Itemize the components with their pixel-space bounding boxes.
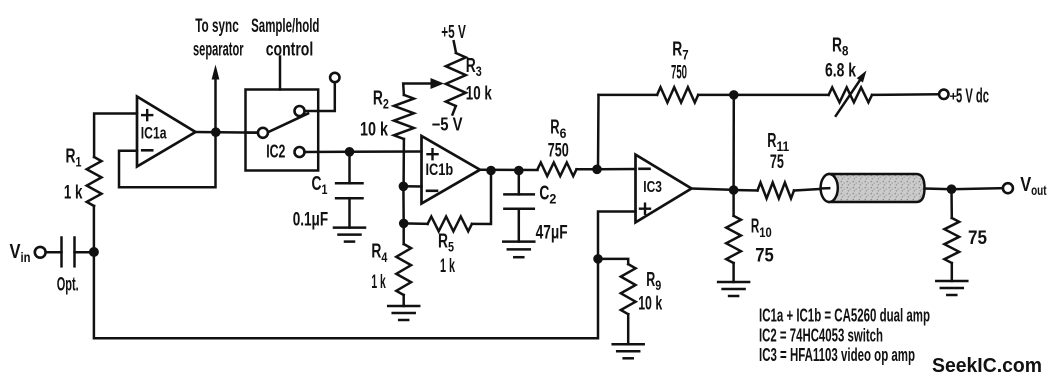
svg-text:IC2 = 74HC4053 switch: IC2 = 74HC4053 switch bbox=[759, 326, 883, 346]
wire bbox=[119, 132, 216, 187]
ground bbox=[936, 281, 967, 295]
svg-text:R7: R7 bbox=[672, 39, 689, 63]
resistor R9 bbox=[621, 264, 662, 314]
wire bbox=[480, 168, 538, 171]
wire bbox=[732, 190, 735, 282]
svg-text:R5: R5 bbox=[438, 231, 454, 255]
node output junction bbox=[947, 184, 957, 194]
wire bottom rail bbox=[94, 252, 598, 338]
wire bbox=[46, 251, 62, 254]
wire bbox=[599, 94, 658, 97]
wire bbox=[93, 206, 96, 252]
svg-text:75: 75 bbox=[968, 227, 987, 249]
label SeekIC.com watermark bbox=[932, 354, 1042, 377]
resistor R10 bbox=[726, 216, 774, 267]
svg-text:SeekIC.com: SeekIC.com bbox=[932, 354, 1042, 377]
node IC1b inverting input bbox=[399, 182, 409, 192]
wire bbox=[350, 150, 422, 153]
wire bbox=[734, 189, 758, 192]
svg-text:75: 75 bbox=[755, 245, 774, 267]
wire bbox=[75, 251, 94, 254]
svg-text:10 k: 10 k bbox=[360, 119, 388, 141]
svg-text:Vin: Vin bbox=[10, 241, 31, 265]
wire bbox=[794, 189, 821, 191]
ground bbox=[718, 282, 749, 296]
wire bbox=[305, 82, 335, 111]
resistor R11 bbox=[758, 130, 795, 199]
wire bbox=[403, 185, 421, 188]
switch throw contact (upper) bbox=[295, 106, 305, 116]
wire bbox=[404, 171, 491, 225]
node bbox=[399, 219, 409, 229]
svg-text:R10: R10 bbox=[751, 216, 772, 240]
node +5V dc terminal bbox=[939, 86, 989, 108]
node Vin terminal bbox=[10, 241, 46, 265]
wire bbox=[734, 94, 829, 97]
svg-text:−5 V: −5 V bbox=[432, 115, 463, 135]
svg-text:IC3: IC3 bbox=[643, 179, 662, 196]
capacitor Opt. (input coupling) bbox=[57, 238, 79, 296]
resistor R6 bbox=[538, 117, 577, 177]
wire bbox=[94, 114, 137, 158]
wire sample/hold control bbox=[251, 15, 319, 90]
svg-text:6.8 k: 6.8 k bbox=[825, 60, 856, 82]
svg-text:10 k: 10 k bbox=[638, 293, 662, 315]
svg-text:Opt.: Opt. bbox=[57, 275, 79, 296]
wire bbox=[441, 22, 466, 53]
svg-text:75: 75 bbox=[770, 151, 784, 173]
svg-text:IC1b: IC1b bbox=[426, 161, 454, 179]
resistor R5 bbox=[428, 217, 472, 278]
resistor R7 bbox=[657, 39, 698, 103]
ground bbox=[334, 228, 365, 242]
svg-text:0.1μF: 0.1μF bbox=[293, 209, 328, 231]
node IC1b output bbox=[486, 166, 496, 176]
op-amp IC1a bbox=[137, 97, 196, 167]
wire bbox=[732, 95, 735, 190]
resistor R8 (variable) bbox=[825, 35, 872, 116]
wire bbox=[196, 131, 258, 134]
op-amp IC1b bbox=[422, 136, 481, 204]
svg-text:To sync: To sync bbox=[195, 15, 239, 37]
svg-text:47μF: 47μF bbox=[536, 222, 568, 244]
svg-text:R8: R8 bbox=[832, 35, 849, 59]
wire bbox=[597, 168, 636, 171]
wire bbox=[598, 259, 628, 344]
svg-text:C1: C1 bbox=[312, 173, 328, 197]
svg-text:R1: R1 bbox=[66, 145, 82, 169]
ground bbox=[613, 344, 644, 358]
capacitor C1 bbox=[293, 152, 363, 231]
svg-text:R6: R6 bbox=[550, 117, 566, 141]
wire bbox=[432, 106, 463, 135]
svg-text:+5 V: +5 V bbox=[441, 22, 466, 42]
node Vout terminal bbox=[1003, 174, 1047, 198]
node IC1a output bbox=[211, 127, 221, 137]
wire bbox=[872, 93, 939, 96]
svg-text:IC3 = HFA1103 video op amp: IC3 = HFA1103 video op amp bbox=[759, 345, 915, 365]
switch blade bbox=[268, 114, 308, 133]
node feedback junction bbox=[729, 90, 739, 100]
wire bbox=[950, 189, 953, 281]
svg-text:1 k: 1 k bbox=[440, 255, 455, 277]
wire bbox=[402, 186, 405, 223]
svg-text:Vout: Vout bbox=[1020, 174, 1047, 198]
svg-text:IC1a: IC1a bbox=[141, 125, 167, 143]
wire bbox=[598, 212, 636, 259]
wire to sync separator bbox=[193, 15, 244, 128]
node hold capacitor junction bbox=[345, 147, 355, 157]
svg-text:control: control bbox=[266, 39, 314, 61]
svg-text:R4: R4 bbox=[371, 241, 387, 265]
svg-text:750: 750 bbox=[548, 139, 569, 161]
resistor 75 (load) bbox=[944, 218, 987, 263]
wire bbox=[692, 189, 734, 190]
wire bbox=[597, 95, 600, 169]
coax cable bbox=[821, 174, 925, 202]
svg-text:Sample/hold: Sample/hold bbox=[251, 15, 319, 37]
svg-text:separator: separator bbox=[193, 39, 244, 61]
wire bbox=[246, 131, 258, 134]
wire bbox=[698, 94, 734, 97]
svg-text:C2: C2 bbox=[539, 183, 556, 207]
switch IC2 box bbox=[246, 90, 319, 171]
svg-text:IC1a + IC1b = CA5260 dual amp: IC1a + IC1b = CA5260 dual amp bbox=[759, 306, 930, 326]
switch output contact bbox=[295, 147, 305, 157]
svg-text:5 V dc: 5 V dc bbox=[956, 86, 989, 108]
svg-text:1 k: 1 k bbox=[64, 182, 83, 204]
ground bbox=[503, 242, 534, 258]
svg-text:R9: R9 bbox=[646, 269, 661, 293]
svg-text:R3: R3 bbox=[466, 55, 482, 79]
svg-text:1 k: 1 k bbox=[371, 271, 385, 293]
ground bbox=[388, 306, 419, 320]
node control terminal bbox=[330, 73, 339, 82]
resistor R2 bbox=[360, 88, 414, 141]
wire bbox=[577, 168, 598, 171]
svg-text:750: 750 bbox=[671, 61, 687, 83]
op-amp IC3 bbox=[636, 155, 692, 223]
node bbox=[593, 254, 603, 264]
resistor R3 bbox=[446, 53, 492, 106]
svg-text:IC2: IC2 bbox=[266, 142, 285, 162]
resistor R4 bbox=[371, 241, 411, 295]
wire bbox=[402, 223, 405, 306]
capacitor C2 bbox=[504, 171, 567, 244]
node input junction bbox=[89, 247, 99, 257]
wire bbox=[925, 187, 952, 190]
node IC3 inverting node bbox=[592, 165, 602, 175]
node bbox=[514, 166, 524, 176]
resistor R1 bbox=[64, 145, 102, 206]
wire wiper bbox=[403, 78, 444, 95]
svg-text:10 k: 10 k bbox=[466, 83, 492, 105]
wire bbox=[952, 188, 1003, 189]
switch pole contact bbox=[258, 128, 268, 138]
svg-text:R2: R2 bbox=[373, 88, 389, 112]
node IC3 output bbox=[729, 185, 739, 195]
label circuit notes bbox=[759, 306, 930, 366]
wire bbox=[402, 139, 405, 186]
wire bbox=[305, 151, 350, 154]
